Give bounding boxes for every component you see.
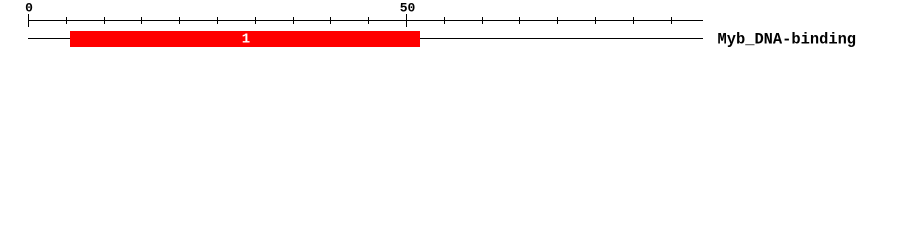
minor tick 25 — [217, 17, 218, 24]
minor tick 5 — [66, 17, 67, 24]
svg-text:1: 1 — [242, 32, 250, 48]
background — [0, 0, 900, 58]
major tick 0 — [28, 14, 29, 27]
minor tick 65 — [519, 17, 520, 24]
minor tick 20 — [179, 17, 180, 24]
minor tick 45 — [368, 17, 369, 24]
minor tick 40 — [330, 17, 331, 24]
svg-text:50: 50 — [400, 1, 416, 16]
svg-text:0: 0 — [25, 1, 33, 16]
minor tick 30 — [255, 17, 256, 24]
svg-text:Myb_DNA-binding: Myb_DNA-binding — [718, 30, 857, 48]
minor tick 70 — [557, 17, 558, 24]
minor tick 35 — [293, 17, 294, 24]
minor tick 55 — [444, 17, 445, 24]
major tick 50 — [406, 14, 407, 27]
minor tick 80 — [633, 17, 634, 24]
minor tick 15 — [141, 17, 142, 24]
domain box 1 (Myb_DNA-binding) — [70, 31, 420, 47]
minor tick 75 — [595, 17, 596, 24]
minor tick 10 — [104, 17, 105, 24]
minor tick 60 — [482, 17, 483, 24]
ruler axis line — [28, 20, 703, 21]
minor tick 85 — [671, 17, 672, 24]
sequence line — [28, 38, 703, 39]
